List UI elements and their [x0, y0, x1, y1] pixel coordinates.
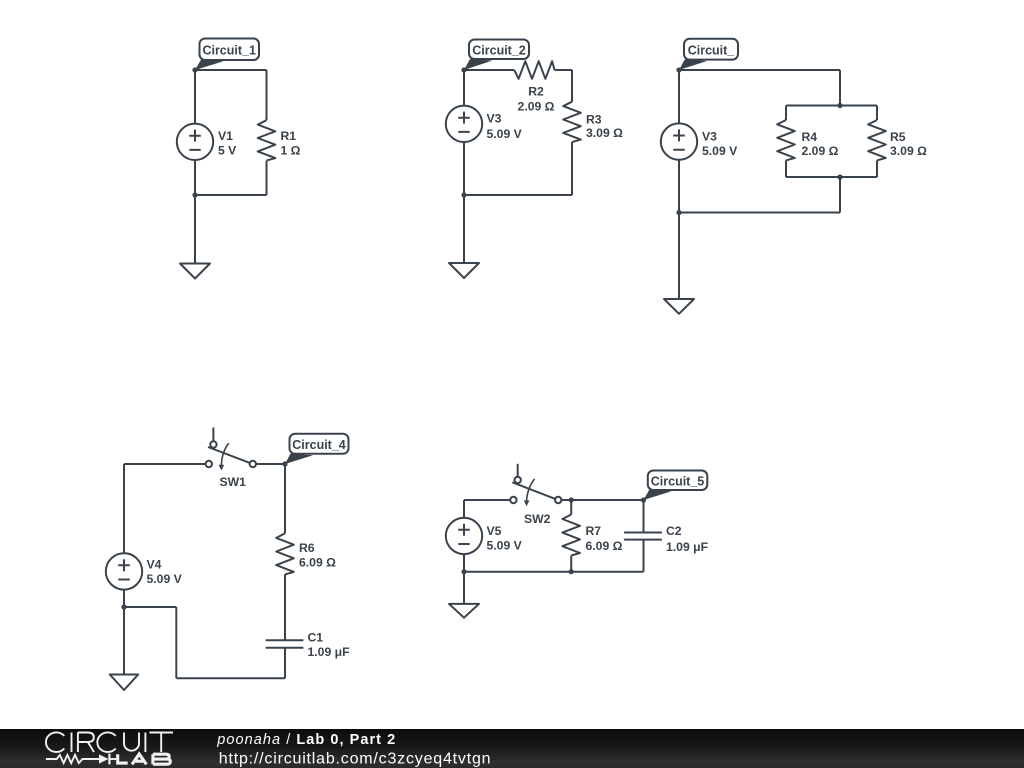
svg-text:Circuit_1: Circuit_1	[202, 44, 256, 58]
svg-text:Circuit_4: Circuit_4	[292, 438, 346, 452]
svg-text:3.09 Ω: 3.09 Ω	[586, 126, 623, 140]
svg-text:2.09 Ω: 2.09 Ω	[802, 144, 839, 158]
svg-text:C1: C1	[308, 631, 324, 645]
svg-text:1 Ω: 1 Ω	[281, 144, 301, 158]
svg-text:R1: R1	[281, 129, 297, 143]
svg-text:6.09 Ω: 6.09 Ω	[586, 539, 623, 553]
svg-text:V1: V1	[218, 129, 233, 143]
svg-text:R4: R4	[802, 130, 818, 144]
svg-text:R2: R2	[528, 85, 544, 99]
svg-text:V5: V5	[487, 524, 502, 538]
svg-text:Circuit_5: Circuit_5	[651, 475, 705, 489]
svg-text:5.09 V: 5.09 V	[487, 127, 523, 141]
svg-text:R5: R5	[890, 130, 906, 144]
svg-text:R6: R6	[299, 541, 315, 555]
svg-text:SW1: SW1	[220, 475, 247, 489]
svg-text:poonaha / Lab 0, Part 2: poonaha / Lab 0, Part 2	[216, 732, 396, 748]
svg-text:SW2: SW2	[524, 512, 551, 526]
svg-text:6.09 Ω: 6.09 Ω	[299, 556, 336, 570]
svg-text:5.09 V: 5.09 V	[147, 572, 183, 586]
svg-text:Circuit_2: Circuit_2	[472, 44, 526, 58]
svg-text:R3: R3	[586, 113, 602, 127]
svg-text:V3: V3	[487, 111, 502, 125]
svg-text:R7: R7	[586, 524, 602, 538]
svg-text:http://circuitlab.com/c3zcyeq4: http://circuitlab.com/c3zcyeq4tvtgn	[219, 750, 492, 767]
svg-text:V4: V4	[147, 558, 162, 572]
svg-text:5 V: 5 V	[218, 144, 237, 158]
svg-text:1.09 μF: 1.09 μF	[308, 645, 350, 659]
svg-text:5.09 V: 5.09 V	[487, 539, 523, 553]
svg-text:Circuit_: Circuit_	[688, 44, 736, 58]
svg-text:5.09 V: 5.09 V	[702, 144, 738, 158]
svg-text:2.09 Ω: 2.09 Ω	[518, 99, 555, 113]
svg-text:V3: V3	[702, 130, 717, 144]
svg-text:3.09 Ω: 3.09 Ω	[890, 144, 927, 158]
svg-text:1.09 μF: 1.09 μF	[666, 540, 708, 554]
svg-text:C2: C2	[666, 524, 682, 538]
